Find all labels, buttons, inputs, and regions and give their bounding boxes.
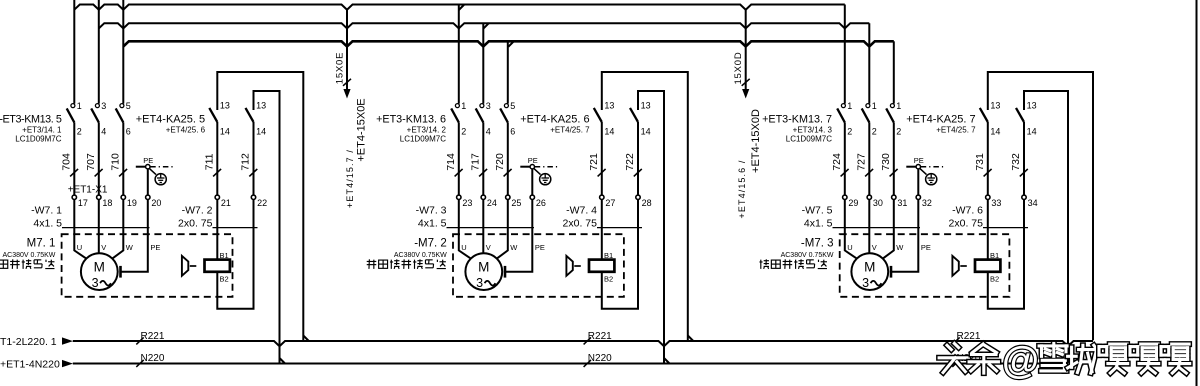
wire bus L1 (top phase bus)	[74, 5, 845, 11]
svg-text:2: 2	[896, 127, 901, 137]
machine outline dashed box section 3	[840, 234, 1010, 297]
svg-text:714: 714	[445, 153, 457, 171]
svg-text:W: W	[126, 243, 134, 252]
wire number 721	[588, 153, 606, 176]
protective earth symbol section 2	[540, 174, 551, 185]
svg-text:30: 30	[873, 198, 883, 208]
wire phase L2 drop section 3	[868, 23, 870, 103]
cable -W7.4 2x0.75	[563, 204, 642, 229]
wire motor lead PE section 2	[505, 200, 532, 278]
svg-text:AC380V 0.75KW: AC380V 0.75KW	[2, 252, 55, 259]
svg-text:14: 14	[604, 127, 614, 137]
svg-text:B1: B1	[604, 251, 613, 260]
wire number 704	[60, 153, 78, 176]
svg-text:-M7. 3: -M7. 3	[801, 237, 834, 249]
svg-text:5: 5	[510, 101, 515, 111]
contactor +ET3-KM13.7 main contacts	[837, 101, 901, 195]
svg-text:+ET4/15.6 /: +ET4/15.6 /	[737, 160, 747, 219]
svg-text:M7. 1: M7. 1	[27, 237, 56, 249]
label net N220	[584, 353, 613, 367]
svg-text:6: 6	[126, 127, 131, 137]
wire phase L1 drop section 2	[458, 5, 460, 104]
relay contact +ET4-KA25.7 pole 13/14 (brake lift)	[980, 72, 1093, 340]
wire bus L3 (bottom phase bus)	[123, 41, 894, 47]
wire off-page net 15X0E	[343, 10, 351, 99]
svg-text:B2: B2	[990, 274, 999, 283]
cable -W7.5 4x1.5	[802, 204, 920, 229]
wire phase L2 drop section 1	[98, 0, 100, 104]
svg-text:+ET4/25. 6: +ET4/25. 6	[166, 126, 206, 135]
svg-text:5: 5	[126, 101, 131, 111]
node PE pickup section 1	[136, 156, 174, 195]
wire brake B2 loop to terminal 22	[217, 200, 253, 309]
wire motor lead U section 3	[845, 200, 857, 259]
watermark 头条@雪城嘎嘎嘎	[939, 340, 1190, 382]
svg-text:6: 6	[510, 127, 515, 137]
relay contact +ET4-KA25.6 pole 13/14 (brake lift)	[594, 72, 694, 341]
svg-text:B2: B2	[604, 274, 613, 283]
label +ET1-2L220.1 source arrow	[0, 336, 57, 348]
wire drawing frame right border	[1196, 0, 1198, 386]
svg-text:W: W	[896, 243, 904, 252]
svg-text:19: 19	[127, 198, 137, 208]
node PE pickup section 3	[906, 156, 944, 195]
wire bus L2 (middle phase bus)	[99, 23, 870, 29]
label relay designator +ET4-KA25.6	[520, 114, 590, 135]
svg-text:15X0D: 15X0D	[733, 51, 744, 84]
svg-text:+ET1-X1: +ET1-X1	[68, 185, 108, 196]
svg-text:-ET3-KM13. 5: -ET3-KM13. 5	[0, 114, 62, 126]
label relay designator +ET4-KA25.5	[136, 114, 206, 135]
label motor chinese name section 2	[367, 259, 446, 269]
label motor designator -M7.2	[394, 237, 447, 258]
svg-text:+ET1-4N220: +ET1-4N220	[0, 358, 60, 370]
label contactor designator +ET3-KM13.6	[376, 114, 446, 144]
svg-text:14: 14	[990, 127, 1000, 137]
wire off-page net 15X0D	[742, 10, 750, 99]
svg-text:+ET4/15.7 /: +ET4/15.7 /	[345, 149, 355, 208]
svg-text:4x1. 5: 4x1. 5	[804, 218, 833, 230]
brake horn symbol section 2	[566, 256, 587, 276]
svg-text:3: 3	[862, 276, 869, 290]
svg-text:13: 13	[641, 101, 651, 111]
svg-text:727: 727	[855, 153, 867, 171]
svg-text:4: 4	[101, 127, 106, 137]
svg-text:732: 732	[1010, 153, 1022, 171]
wire number 731	[974, 153, 992, 176]
machine outline dashed box section 2	[453, 234, 624, 297]
svg-text:B1: B1	[990, 251, 999, 260]
wire number 712	[240, 153, 258, 176]
label net N220	[136, 353, 165, 367]
label contactor designator +ET3-KM13.7	[762, 114, 832, 144]
wire motor lead V section 3	[868, 200, 870, 254]
wire bus N220	[62, 360, 1068, 367]
svg-text:712: 712	[240, 153, 252, 171]
svg-text:-W7. 5: -W7. 5	[802, 204, 833, 216]
svg-text:3: 3	[92, 276, 99, 290]
svg-text:13: 13	[990, 101, 1000, 111]
svg-text:717: 717	[469, 153, 481, 171]
svg-text:M: M	[864, 260, 875, 275]
svg-text:R221: R221	[588, 331, 612, 342]
svg-text:-W7. 2: -W7. 2	[182, 204, 213, 216]
svg-text:PE: PE	[914, 156, 924, 165]
svg-text:4x1. 5: 4x1. 5	[418, 218, 447, 230]
wire motor lead U section 2	[459, 200, 471, 259]
cable -W7.6 2x0.75	[949, 204, 1028, 229]
cable -W7.3 4x1.5	[416, 204, 534, 229]
wire motor lead V section 2	[482, 200, 484, 254]
motor -M7.3 3-phase	[851, 253, 888, 290]
svg-text:AC380V 0.75KW: AC380V 0.75KW	[394, 252, 447, 259]
svg-text:-W7. 3: -W7. 3	[416, 204, 447, 216]
svg-text:14: 14	[220, 127, 230, 137]
label motor lead names section 3	[847, 243, 931, 252]
label motor lead names section 1	[77, 243, 161, 252]
wire number 710	[109, 153, 127, 176]
svg-text:+ET3/14. 2: +ET3/14. 2	[407, 126, 447, 135]
svg-text:33: 33	[991, 198, 1001, 208]
label relay designator +ET4-KA25.7	[906, 114, 976, 135]
svg-text:26: 26	[536, 198, 546, 208]
brake coil B1/B2 section 3	[975, 251, 1000, 284]
svg-text:721: 721	[588, 153, 600, 171]
cross-reference label +ET4-15X0E	[345, 98, 367, 208]
svg-text:U: U	[847, 243, 852, 252]
svg-text:+ET4-15X0D: +ET4-15X0D	[750, 109, 762, 173]
svg-text:V: V	[486, 243, 491, 252]
svg-text:V: V	[872, 243, 877, 252]
svg-text:1: 1	[896, 101, 901, 111]
cable -W7.2 2x0.75	[178, 204, 257, 229]
label motor chinese name section 3	[759, 259, 827, 269]
svg-text:711: 711	[203, 153, 215, 170]
svg-text:2x0. 75: 2x0. 75	[563, 218, 598, 230]
machine outline dashed box section 1	[62, 234, 233, 297]
svg-text:-W7. 1: -W7. 1	[31, 204, 62, 216]
svg-text:+ET4-KA25. 5: +ET4-KA25. 5	[136, 114, 205, 126]
brake horn symbol section 3	[952, 256, 973, 276]
wire motor lead PE section 3	[891, 200, 918, 278]
wire motor lead V section 1	[98, 200, 100, 254]
label net R221	[952, 331, 981, 345]
svg-text:722: 722	[624, 153, 636, 171]
svg-text:-W7. 6: -W7. 6	[952, 204, 983, 216]
wire number 717	[469, 153, 487, 176]
svg-text:24: 24	[487, 198, 497, 208]
svg-text:707: 707	[85, 153, 97, 171]
svg-text:LC1D09M7C: LC1D09M7C	[15, 135, 61, 144]
svg-text:R221: R221	[957, 331, 981, 342]
relay contact +ET4-KA25.5 pole 13/14 (second)	[246, 91, 286, 364]
svg-text:13: 13	[1027, 101, 1037, 111]
svg-text:2x0. 75: 2x0. 75	[178, 218, 213, 230]
relay contact +ET4-KA25.6 pole 13/14 (second)	[630, 91, 670, 364]
svg-text:27: 27	[605, 198, 615, 208]
net label 15X0E	[334, 52, 345, 85]
label +ET1-4N220 source arrow	[0, 358, 60, 370]
wire number 707	[85, 153, 103, 176]
svg-text:+ET3/14. 3: +ET3/14. 3	[793, 126, 833, 135]
wire phase L1 drop section 3	[844, 5, 846, 104]
svg-text:-W7. 4: -W7. 4	[566, 204, 597, 216]
wire brake B2 loop to terminal 34	[988, 200, 1024, 309]
relay contact +ET4-KA25.5 pole 13/14 (brake lift)	[209, 72, 308, 341]
svg-text:29: 29	[848, 198, 858, 208]
svg-text:+ET3-KM13. 6: +ET3-KM13. 6	[376, 114, 446, 126]
svg-text:LC1D09M7C: LC1D09M7C	[786, 135, 832, 144]
svg-text:U: U	[77, 243, 82, 252]
protective earth symbol section 1	[155, 174, 166, 185]
svg-text:1: 1	[847, 101, 852, 111]
relay contact +ET4-KA25.7 pole 13/14 (second)	[1016, 91, 1074, 364]
brake horn symbol section 1	[182, 256, 203, 276]
svg-text:720: 720	[494, 153, 506, 171]
terminal row X1 terminals 17-20	[72, 195, 161, 208]
svg-text:+ET4/25. 7: +ET4/25. 7	[550, 126, 590, 135]
svg-text:T1-2L220. 1: T1-2L220. 1	[0, 336, 57, 348]
wire number 722	[624, 153, 642, 176]
brake coil B1/B2 section 1	[205, 251, 230, 284]
wire number 714	[445, 153, 463, 176]
svg-text:+ET4-KA25. 7: +ET4-KA25. 7	[906, 114, 975, 126]
svg-text:+ET4-15X0E: +ET4-15X0E	[355, 98, 367, 161]
label motor designator M7.1	[2, 237, 55, 258]
svg-text:3: 3	[486, 101, 491, 111]
wire brake B1 to terminal 33	[987, 200, 989, 260]
net label 15X0D	[733, 51, 744, 84]
svg-text:-M7. 2: -M7. 2	[414, 237, 447, 249]
wire motor lead PE section 1	[121, 200, 148, 278]
svg-text:4x1. 5: 4x1. 5	[33, 218, 62, 230]
svg-text:1: 1	[77, 101, 82, 111]
wire bus R221	[62, 337, 1093, 346]
svg-text:13: 13	[604, 101, 614, 111]
svg-text:1: 1	[872, 101, 877, 111]
svg-text:20: 20	[151, 198, 161, 208]
svg-text:2: 2	[461, 127, 466, 137]
svg-text:+ET3/14. 1: +ET3/14. 1	[22, 126, 62, 135]
svg-text:2: 2	[847, 127, 852, 137]
wire phase L1 drop section 1	[73, 0, 75, 104]
svg-text:15X0E: 15X0E	[334, 52, 345, 85]
wire phase L3 drop section 1	[122, 0, 124, 104]
label contactor designator -ET3-KM13.5	[0, 114, 62, 144]
svg-text:730: 730	[880, 153, 892, 171]
svg-text:B2: B2	[220, 274, 229, 283]
wire number 730	[880, 153, 898, 176]
svg-text:@: @	[1002, 340, 1039, 382]
svg-text:14: 14	[1027, 127, 1037, 137]
wire number 711	[203, 153, 221, 176]
label motor designator -M7.3	[781, 237, 834, 258]
svg-text:23: 23	[462, 198, 472, 208]
svg-text:32: 32	[922, 198, 932, 208]
svg-text:18: 18	[102, 198, 112, 208]
label motor lead names section 2	[461, 243, 545, 252]
svg-text:W: W	[510, 243, 518, 252]
wire phase L2 drop section 2	[482, 23, 484, 103]
wire phase L3 drop section 3	[893, 41, 895, 103]
svg-text:LC1D09M7C: LC1D09M7C	[400, 135, 446, 144]
svg-text:+ET3-KM13. 7: +ET3-KM13. 7	[762, 114, 832, 126]
svg-text:R221: R221	[141, 331, 165, 342]
wire number 724	[831, 153, 849, 176]
label net R221	[584, 331, 613, 345]
terminal row X1 terminals 23-26	[457, 195, 546, 208]
svg-text:25: 25	[511, 198, 521, 208]
wire number 727	[855, 153, 873, 176]
cross-reference label +ET4-15X0D	[737, 109, 762, 218]
svg-text:21: 21	[221, 198, 231, 208]
svg-text:AC380V 0.75KW: AC380V 0.75KW	[781, 252, 834, 259]
wire motor lead W section 2	[497, 200, 508, 259]
svg-text:PE: PE	[143, 156, 153, 165]
svg-text:N220: N220	[588, 353, 612, 364]
motor M7.1 3-phase	[81, 253, 118, 290]
label motor chinese name section 1	[0, 259, 54, 269]
svg-text:31: 31	[897, 198, 907, 208]
brake coil B1/B2 section 2	[589, 251, 614, 284]
svg-text:2x0. 75: 2x0. 75	[949, 218, 984, 230]
svg-text:V: V	[101, 243, 106, 252]
svg-text:PE: PE	[535, 243, 545, 252]
svg-text:U: U	[461, 243, 466, 252]
wire number 732	[1010, 153, 1028, 176]
svg-text:B1: B1	[220, 251, 229, 260]
svg-text:13: 13	[220, 101, 230, 111]
wire motor lead W section 1	[112, 200, 123, 259]
terminal row X1 terminals 27-28	[600, 195, 652, 208]
svg-text:3: 3	[476, 276, 483, 290]
svg-text:731: 731	[974, 153, 986, 171]
svg-text:1: 1	[461, 101, 466, 111]
contactor -ET3-KM13.5 main contacts	[67, 101, 131, 195]
svg-text:4: 4	[486, 127, 491, 137]
svg-text:22: 22	[257, 198, 267, 208]
svg-text:PE: PE	[150, 243, 160, 252]
wire brake B1 to terminal 27	[601, 200, 603, 260]
contactor +ET3-KM13.6 main contacts	[451, 101, 515, 195]
svg-text:28: 28	[642, 198, 652, 208]
svg-text:17: 17	[78, 198, 88, 208]
wire brake B2 loop to terminal 28	[602, 200, 638, 309]
protective earth symbol section 3	[926, 174, 937, 185]
node PE pickup section 2	[520, 156, 558, 195]
svg-text:M: M	[94, 260, 105, 275]
svg-text:704: 704	[60, 153, 72, 171]
wire brake B1 to terminal 21	[216, 200, 218, 260]
svg-text:+ET4/25. 7: +ET4/25. 7	[936, 126, 976, 135]
svg-text:34: 34	[1028, 198, 1038, 208]
svg-text:14: 14	[641, 127, 651, 137]
terminal row X1 terminals 33-34	[986, 195, 1038, 208]
svg-text:13: 13	[256, 101, 266, 111]
svg-text:M: M	[478, 260, 489, 275]
wire motor lead U section 1	[74, 200, 86, 259]
wire phase L3 drop section 2	[507, 41, 509, 103]
svg-text:724: 724	[831, 153, 843, 171]
svg-text:PE: PE	[528, 156, 538, 165]
terminal strip +ET1-X1 label	[68, 185, 108, 196]
svg-text:N220: N220	[141, 353, 165, 364]
svg-text:2: 2	[872, 127, 877, 137]
svg-text:14: 14	[256, 127, 266, 137]
label net R221	[136, 331, 165, 345]
svg-text:PE: PE	[921, 243, 931, 252]
motor -M7.2 3-phase	[465, 253, 502, 290]
svg-text:+ET4-KA25. 6: +ET4-KA25. 6	[520, 114, 589, 126]
svg-text:2: 2	[77, 127, 82, 137]
wire number 720	[494, 153, 512, 176]
terminal row X1 terminals 29-32	[843, 195, 932, 208]
label net N220	[952, 353, 981, 367]
cable -W7.1 4x1.5	[31, 204, 149, 229]
svg-text:3: 3	[101, 101, 106, 111]
svg-text:710: 710	[109, 153, 121, 171]
terminal row X1 terminals 21-22	[215, 195, 267, 208]
wire motor lead W section 3	[883, 200, 894, 259]
